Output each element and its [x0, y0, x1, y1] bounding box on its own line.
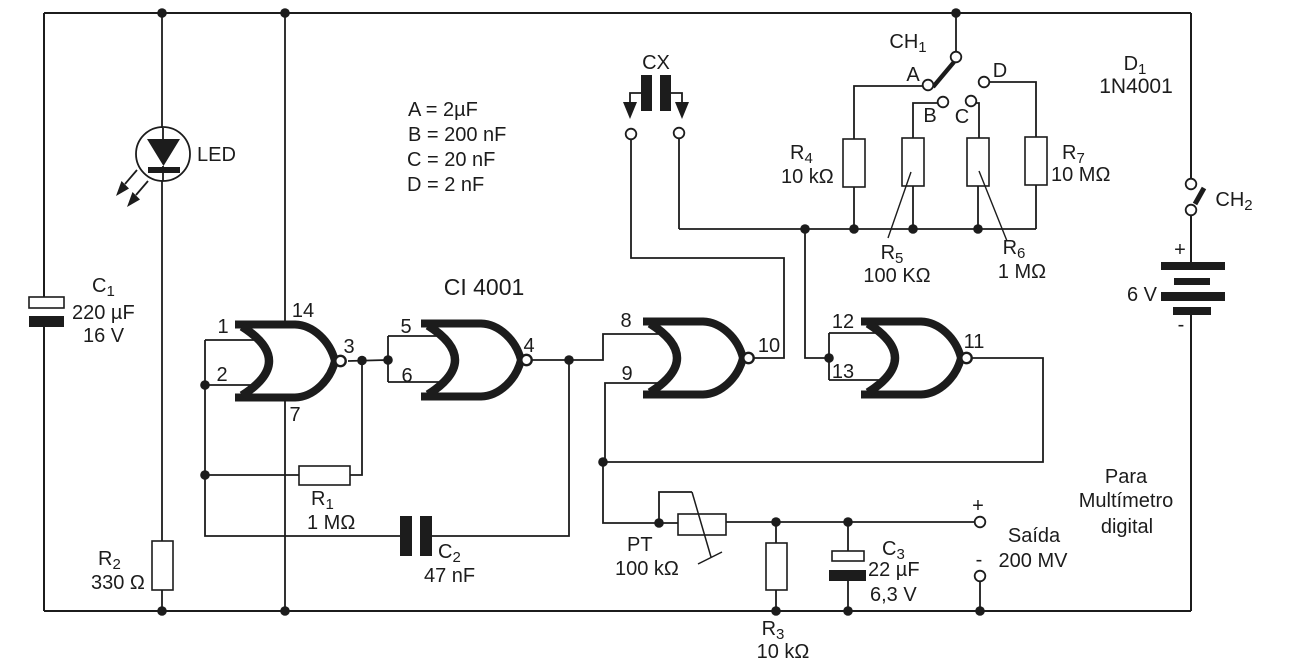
- LED light-emission arrows: [125, 170, 148, 195]
- svg-text:-: -: [976, 549, 983, 571]
- wire: U1c output (pin 10) to CX left branch: [631, 140, 784, 358]
- node: feedback / pin 9 junction: [598, 457, 608, 467]
- svg-text:2: 2: [216, 364, 227, 386]
- svg-text:PT: PT: [627, 534, 653, 556]
- wire: R2 to ground rail: [161, 590, 163, 611]
- node: R1 / C2 branch junction: [200, 470, 210, 480]
- wire: contact B to R5: [913, 103, 938, 138]
- svg-text:330 Ω: 330 Ω: [91, 572, 145, 594]
- switch CH1 pivot contact: [951, 52, 962, 63]
- svg-text:6 V: 6 V: [1127, 284, 1158, 306]
- svg-text:47 nF: 47 nF: [424, 565, 475, 587]
- svg-text:220 µF: 220 µF: [72, 302, 135, 324]
- wire: input bracket of U1a: [204, 340, 206, 385]
- svg-text:4: 4: [523, 335, 534, 357]
- svg-text:C1: C1: [92, 275, 115, 300]
- node: U1a output (pin 3): [357, 356, 367, 366]
- node: top rail junction to LED branch: [157, 8, 167, 18]
- svg-text:200 MV: 200 MV: [999, 550, 1069, 572]
- node: U1b output / C2 junction: [564, 355, 574, 365]
- wire: left border lower segment (from C1): [43, 327, 45, 611]
- svg-text:7: 7: [289, 404, 300, 426]
- svg-text:B: B: [923, 105, 936, 127]
- CX right lead with arrow: [671, 93, 682, 102]
- R5 pointer line: [888, 172, 911, 238]
- pin 13 wire: [829, 379, 881, 381]
- svg-text:CH1: CH1: [889, 31, 926, 56]
- wire: node to R1 left lead: [205, 474, 299, 476]
- svg-text:A: A: [906, 64, 920, 86]
- resistor R7: [1025, 137, 1047, 185]
- wire: input bracket of U1d: [828, 333, 830, 380]
- node: R3 top junction: [771, 517, 781, 527]
- node: PT left junction: [654, 518, 664, 528]
- pin 9 wire: [605, 383, 663, 462]
- wire: R4 to timing bus: [853, 187, 855, 229]
- svg-text:13: 13: [832, 361, 854, 383]
- wire: C2 to U1b output node: [432, 360, 569, 536]
- svg-text:CX: CX: [642, 52, 670, 74]
- wire: pin 2 node down to R1 node: [204, 385, 206, 475]
- svg-text:10 kΩ: 10 kΩ: [781, 166, 834, 188]
- switch contact D: [979, 77, 990, 88]
- capacitor CX plates: [641, 75, 652, 111]
- svg-text:Para: Para: [1105, 466, 1148, 488]
- svg-text:5: 5: [400, 316, 411, 338]
- wire: U1a output to node: [348, 360, 388, 361]
- svg-text:C = 20 nF: C = 20 nF: [407, 149, 495, 171]
- node: bus branch: [800, 224, 810, 234]
- LED (circle, triangle, cathode bar): [136, 127, 190, 181]
- wire: timing bus (R4-R7 bottoms): [679, 228, 1036, 230]
- svg-text:12: 12: [832, 311, 854, 333]
- NOR gate U1d (pins 12,13,11) output inversion bubble: [961, 353, 971, 363]
- wire: R7 to timing bus: [1035, 185, 1037, 229]
- node: C3 at ground rail: [843, 606, 853, 616]
- node: top rail junction to CH1: [951, 8, 961, 18]
- pin 2 wire: [205, 384, 257, 386]
- wire: R6 to timing bus: [977, 186, 979, 229]
- svg-text:CH2: CH2: [1215, 189, 1252, 214]
- wire: top rail to LED: [161, 13, 163, 128]
- svg-text:+: +: [972, 495, 984, 517]
- svg-text:-: -: [1178, 314, 1185, 336]
- node: top rail junction to pin 14: [280, 8, 290, 18]
- svg-text:+: +: [1174, 239, 1186, 261]
- pin 12 wire: [829, 332, 881, 334]
- switch CH1 lever: [933, 62, 954, 87]
- switch contact C: [966, 96, 977, 107]
- svg-text:R1: R1: [311, 488, 334, 513]
- resistor R1: [299, 466, 350, 485]
- svg-text:100 KΩ: 100 KΩ: [863, 265, 930, 287]
- svg-text:C: C: [955, 106, 969, 128]
- svg-text:1: 1: [217, 316, 228, 338]
- R6 pointer line: [979, 171, 1007, 241]
- pin 5 wire: [388, 335, 441, 337]
- switch CH2 bottom contact: [1186, 205, 1197, 216]
- svg-text:Multímetro: Multímetro: [1079, 490, 1173, 512]
- resistor R4: [843, 139, 865, 187]
- svg-text:D: D: [993, 60, 1007, 82]
- wire: left border upper segment (to C1): [43, 13, 45, 297]
- capacitor C3 (electrolytic): [832, 551, 864, 561]
- wire: input bracket of U1b: [387, 336, 389, 382]
- wire: R3 to ground rail: [775, 590, 777, 611]
- NOR gate U1b (pins 5,6,4) output inversion bubble: [521, 355, 531, 365]
- svg-text:9: 9: [621, 363, 632, 385]
- wire: contact C to R6: [976, 103, 979, 138]
- NOR gate U1d (pins 12,13,11) input-side arc: [868, 324, 895, 393]
- node: C3 top junction: [843, 517, 853, 527]
- output + terminal: [975, 517, 986, 528]
- svg-text:10 kΩ: 10 kΩ: [757, 641, 810, 663]
- svg-text:6: 6: [401, 365, 412, 387]
- output - terminal: [975, 571, 986, 582]
- NOR gate U1a (pins 1,2,3) output inversion bubble: [335, 356, 345, 366]
- NOR gate U1b (pins 5,6,4) body: [421, 324, 521, 397]
- svg-text:10: 10: [758, 335, 780, 357]
- switch contact A: [923, 80, 934, 91]
- svg-text:R4: R4: [790, 142, 813, 167]
- wire: R1 right lead up to output node: [350, 360, 362, 475]
- PT wiper connection: [659, 492, 692, 523]
- wire: node to R3: [775, 522, 777, 543]
- svg-text:R5: R5: [881, 242, 904, 267]
- NOR gate U1b (pins 5,6,4) input-side arc: [428, 326, 455, 395]
- node: U1d input junction: [824, 353, 834, 363]
- node: R2 at ground rail: [157, 606, 167, 616]
- svg-text:CI 4001: CI 4001: [444, 274, 525, 300]
- svg-text:10 MΩ: 10 MΩ: [1051, 164, 1110, 186]
- svg-text:Saída: Saída: [1008, 525, 1061, 547]
- wire: feedback node down to PT: [603, 462, 659, 523]
- wire: right border upper segment (to CH2): [1190, 13, 1192, 179]
- switch contact B: [938, 97, 949, 108]
- CX left terminal: [626, 129, 637, 140]
- wire: bottom ground rail (border bottom): [44, 610, 1191, 612]
- svg-text:1N4001: 1N4001: [1099, 75, 1173, 98]
- wire: C3 to ground rail: [847, 581, 849, 611]
- svg-text:R2: R2: [98, 548, 121, 573]
- wire: right border lower segment (battery to ground): [1190, 315, 1192, 611]
- wire: C2 node to U1c pin 8: [569, 334, 663, 360]
- svg-text:8: 8: [620, 310, 631, 332]
- resistor R5: [902, 138, 924, 186]
- svg-text:11: 11: [964, 331, 985, 353]
- wire: timing bus branch down to U1d inputs: [805, 229, 829, 358]
- svg-text:22 µF: 22 µF: [868, 559, 920, 581]
- capacitor C1 (electrolytic, on left border): [29, 297, 64, 308]
- pin 1 wire: [205, 339, 255, 341]
- potentiometer PT body: [678, 514, 726, 535]
- wire: CX right terminal down to timing bus: [678, 139, 680, 229]
- wire: gate U1a pin 7 to ground rail: [284, 398, 286, 611]
- node: R3 at ground rail: [771, 606, 781, 616]
- switch CH2 top contact: [1186, 179, 1197, 190]
- resistor R2: [152, 541, 173, 590]
- svg-text:R3: R3: [762, 618, 785, 643]
- wire: right border CH2-to-battery segment: [1190, 215, 1192, 262]
- NOR gate U1c (pins 8,9,10) output inversion bubble: [743, 353, 753, 363]
- svg-text:digital: digital: [1101, 516, 1153, 538]
- wire: U1d output (pin 11) feedback loop: [603, 358, 1043, 462]
- node: U1b input bracket: [383, 355, 393, 365]
- svg-text:6,3 V: 6,3 V: [870, 584, 917, 606]
- wire: contact A to R4: [854, 86, 923, 139]
- node: pin 7 at ground rail: [280, 606, 290, 616]
- svg-text:16 V: 16 V: [83, 325, 125, 347]
- wire: PT right lead to output node: [726, 521, 974, 523]
- CX right terminal: [674, 128, 685, 139]
- wire: - terminal to ground rail: [979, 581, 981, 611]
- NOR gate U1c (pins 8,9,10) body: [643, 322, 743, 395]
- wire: top rail to CH1 pivot: [955, 13, 957, 52]
- wire: R1 node down and right to C2: [205, 475, 400, 536]
- node: pin 2 junction: [200, 380, 210, 390]
- resistor R6: [967, 138, 989, 186]
- node: R6 at bus: [973, 224, 983, 234]
- pin 6 wire: [388, 381, 443, 383]
- switch CH2 lever: [1195, 188, 1204, 204]
- svg-text:D = 2 nF: D = 2 nF: [407, 174, 484, 196]
- svg-text:LED: LED: [197, 144, 236, 166]
- svg-text:R6: R6: [1003, 237, 1026, 262]
- wire: node to C3: [847, 522, 849, 551]
- svg-text:1 MΩ: 1 MΩ: [998, 261, 1046, 283]
- svg-text:B = 200 nF: B = 200 nF: [408, 124, 506, 146]
- svg-text:14: 14: [292, 300, 314, 322]
- wire: LED to R2: [161, 181, 163, 541]
- capacitor C2: [400, 516, 412, 556]
- wire: R5 to timing bus: [912, 186, 914, 229]
- svg-text:100 kΩ: 100 kΩ: [615, 558, 679, 580]
- svg-text:3: 3: [343, 336, 354, 358]
- wire: top rail to gate U1a pin 14: [284, 13, 286, 322]
- resistor R3: [766, 543, 787, 590]
- svg-text:C2: C2: [438, 541, 461, 566]
- wire: U1b output (pin 4) to C2 node: [532, 359, 569, 361]
- node: R5 at bus: [908, 224, 918, 234]
- wire: PT left lead: [659, 522, 678, 524]
- node: R4 at bus: [849, 224, 859, 234]
- NOR gate U1d (pins 12,13,11) body: [861, 322, 961, 395]
- battery B1 6V plates: [1161, 262, 1225, 270]
- svg-text:1 MΩ: 1 MΩ: [307, 512, 355, 534]
- NOR gate U1a (pins 1,2,3) body: [235, 325, 335, 398]
- node: - terminal at ground rail: [975, 606, 985, 616]
- CX left lead with arrow: [630, 93, 641, 102]
- wire: contact D to R7: [989, 82, 1036, 137]
- NOR gate U1a (pins 1,2,3) input-side arc: [242, 327, 269, 396]
- NOR gate U1c (pins 8,9,10) input-side arc: [650, 324, 677, 393]
- svg-text:A = 2µF: A = 2µF: [408, 99, 478, 121]
- wire: top supply rail (border top): [44, 12, 1191, 14]
